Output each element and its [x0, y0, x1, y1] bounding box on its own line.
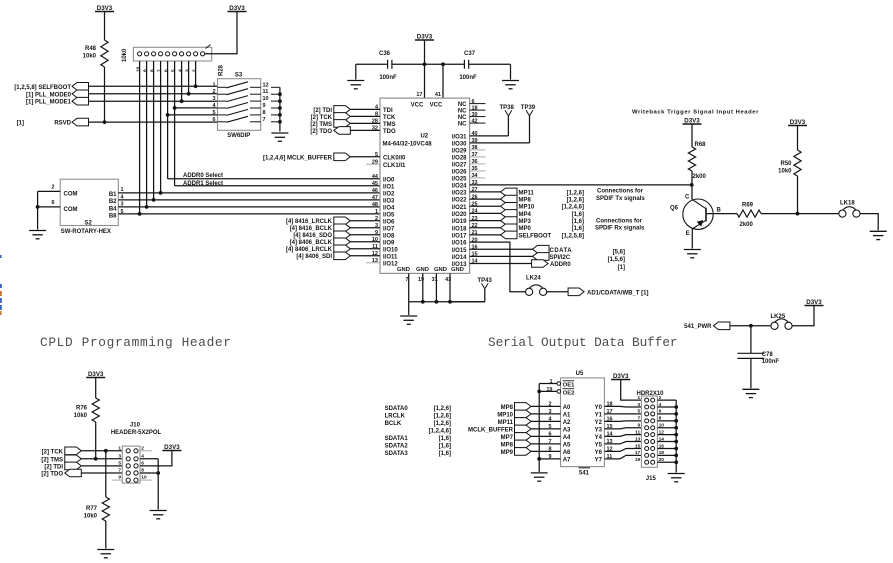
S3 right-side wires to ground bar [271, 86, 280, 88]
svg-text:R68: R68 [695, 142, 707, 148]
wire R50 to node [797, 176, 799, 214]
svg-text:A2: A2 [563, 420, 571, 426]
wire PLL_MODE1 to S3 pin3 [89, 100, 218, 102]
svg-text:10k0: 10k0 [84, 514, 98, 520]
resistor R68 2k00 [688, 147, 695, 171]
svg-text:3: 3 [212, 96, 215, 102]
svg-text:C37: C37 [464, 51, 476, 57]
capacitor C36 100nF [392, 63, 425, 65]
wire R69 to node [761, 213, 839, 215]
svg-text:LRCLK: LRCLK [385, 414, 406, 420]
svg-text:MP8: MP8 [501, 442, 514, 448]
svg-text:17: 17 [635, 450, 641, 456]
svg-text:Y0: Y0 [595, 405, 603, 411]
svg-text:[2] TCK: [2] TCK [311, 115, 333, 121]
svg-text:9: 9 [263, 103, 266, 109]
svg-text:S3: S3 [235, 73, 243, 79]
svg-text:I/O22: I/O22 [452, 198, 467, 204]
svg-text:[1,6]: [1,6] [439, 444, 451, 450]
svg-text:15: 15 [635, 443, 641, 449]
svg-text:J10: J10 [130, 422, 141, 428]
svg-text:[2] TDI: [2] TDI [44, 464, 63, 470]
capacitor C37 100nF [443, 63, 464, 65]
svg-text:[4] 8406_BCLK: [4] 8406_BCLK [290, 240, 333, 246]
svg-text:CLK0/I0: CLK0/I0 [383, 155, 406, 161]
svg-text:I/O31: I/O31 [452, 135, 467, 141]
svg-text:46: 46 [372, 188, 378, 194]
svg-text:A4: A4 [563, 435, 571, 441]
resistor network R28 10k0 [133, 47, 211, 61]
svg-text:NC: NC [458, 109, 467, 115]
svg-text:5: 5 [170, 69, 176, 72]
svg-text:I/O23: I/O23 [452, 191, 467, 197]
svg-text:11: 11 [263, 89, 269, 95]
resistor R50 10k0 [794, 150, 801, 176]
svg-text:Y7: Y7 [595, 458, 603, 464]
svg-text:7: 7 [118, 468, 121, 474]
svg-text:B8: B8 [109, 214, 117, 220]
ground (J10) [150, 510, 167, 512]
svg-text:C78: C78 [762, 352, 774, 358]
svg-text:I/O6: I/O6 [383, 219, 395, 225]
U2 CLK1 stub [366, 163, 380, 165]
svg-text:Y5: Y5 [595, 443, 603, 449]
wire U2 I/O24 to Q6 collector node [470, 184, 692, 186]
ground (C37) [510, 64, 512, 79]
svg-text:[4] 8416_BCLK: [4] 8416_BCLK [290, 226, 333, 232]
ports MP11/MP8/MP10/MP4/MP3/MP0/SELFBOOT [470, 191, 501, 193]
svg-text:U5: U5 [576, 371, 584, 377]
J10 pin10 stub [140, 479, 152, 481]
svg-text:[1,2,6]: [1,2,6] [434, 421, 451, 427]
svg-text:[1,2,4,6] MCLK_BUFFER: [1,2,4,6] MCLK_BUFFER [263, 155, 333, 161]
svg-text:10: 10 [263, 96, 269, 102]
svg-text:[1]: [1] [17, 121, 24, 127]
svg-text:I/O21: I/O21 [452, 205, 467, 211]
svg-text:[1,6]: [1,6] [572, 226, 584, 232]
svg-text:[1,2,5,8] SELFBOOT: [1,2,5,8] SELFBOOT [14, 85, 71, 91]
svg-text:[1,2,6]: [1,2,6] [434, 406, 451, 412]
svg-text:GND: GND [416, 267, 429, 273]
svg-text:J15: J15 [646, 476, 657, 482]
svg-text:I/O24: I/O24 [452, 184, 467, 190]
svg-text:OE2: OE2 [563, 391, 575, 397]
svg-text:[4] 8416_SDO: [4] 8416_SDO [293, 233, 332, 239]
wire LK25 to D3V3 [792, 306, 814, 326]
svg-text:TDO: TDO [383, 129, 396, 135]
svg-text:LK18: LK18 [840, 200, 855, 206]
wire LK24 to port [547, 291, 568, 293]
svg-text:TP38: TP38 [500, 105, 515, 111]
wire B4 to U2 I/O4 [118, 206, 380, 208]
svg-text:[2] TMS: [2] TMS [41, 457, 63, 463]
svg-text:I/O18: I/O18 [452, 226, 467, 232]
svg-text:MP10: MP10 [519, 205, 535, 211]
svg-text:MP8: MP8 [519, 197, 532, 203]
wire R76 to TMS row [95, 422, 97, 459]
svg-text:I/O17: I/O17 [452, 234, 467, 240]
svg-text:10k0: 10k0 [778, 168, 792, 174]
svg-text:A0: A0 [563, 405, 571, 411]
svg-text:541_PWR: 541_PWR [684, 324, 712, 330]
svg-text:I/O29: I/O29 [452, 149, 467, 155]
svg-text:[1] PLL_MODE1: [1] PLL_MODE1 [26, 100, 72, 106]
ground (R77) [97, 549, 114, 551]
svg-text:100nF: 100nF [762, 359, 780, 365]
port AD1/CDATA/WB_T [1] [568, 288, 584, 296]
svg-text:[1,6]: [1,6] [572, 212, 584, 218]
svg-text:I/O14: I/O14 [452, 255, 467, 261]
svg-text:Y4: Y4 [595, 435, 603, 441]
jumper LK24 [529, 285, 543, 289]
svg-text:C36: C36 [379, 51, 391, 57]
svg-text:TDI: TDI [383, 108, 393, 114]
svg-text:R50: R50 [780, 161, 792, 167]
ground (S2) [29, 230, 46, 232]
test point TP39 [470, 142, 530, 144]
svg-text:[1,2,4,6]: [1,2,4,6] [562, 205, 584, 211]
svg-text:I/O12: I/O12 [383, 261, 398, 267]
ground (LK18) [870, 230, 887, 232]
wire 541_PWR to LK25 [730, 325, 771, 327]
ground (Q6) [684, 249, 701, 251]
svg-text:100nF: 100nF [379, 75, 397, 81]
svg-text:LK25: LK25 [771, 314, 786, 320]
svg-text:MP3: MP3 [519, 219, 532, 225]
svg-text:Q6: Q6 [670, 206, 679, 212]
svg-text:TMS: TMS [383, 122, 396, 128]
svg-text:100nF: 100nF [459, 75, 477, 81]
wire R68 to collector node [691, 171, 693, 199]
svg-text:HEADER-5X2POL: HEADER-5X2POL [111, 430, 162, 436]
svg-text:9: 9 [548, 454, 551, 460]
svg-text:1: 1 [121, 187, 124, 193]
svg-text:3: 3 [638, 402, 641, 408]
svg-text:[1]: [1] [618, 265, 625, 271]
wire Q6 emitter to ground [691, 229, 693, 249]
svg-text:ADDR0: ADDR0 [550, 262, 571, 268]
svg-text:CDATA: CDATA [550, 248, 573, 254]
resistor R76 10k0 [92, 398, 99, 422]
svg-text:3: 3 [184, 69, 190, 72]
svg-text:I/O11: I/O11 [383, 254, 398, 260]
svg-text:[5,6]: [5,6] [613, 250, 625, 256]
svg-text:R48: R48 [85, 46, 97, 52]
svg-text:[2] TDI: [2] TDI [313, 108, 332, 114]
wires J15 right pins to ground bar [657, 399, 676, 401]
svg-text:Connections for: Connections for [596, 218, 643, 224]
svg-text:9: 9 [638, 423, 641, 429]
svg-text:11: 11 [635, 429, 640, 435]
svg-text:SW6DIP: SW6DIP [227, 133, 250, 139]
svg-text:I/O3: I/O3 [383, 199, 395, 205]
svg-text:2: 2 [212, 89, 215, 95]
svg-text:1: 1 [549, 379, 552, 385]
svg-text:[2] TCK: [2] TCK [42, 449, 64, 455]
wire VCC rail [425, 63, 444, 65]
svg-text:B2: B2 [109, 199, 117, 205]
svg-text:[1,2,6]: [1,2,6] [567, 190, 584, 196]
svg-text:OE1: OE1 [563, 383, 575, 389]
wire R28 pin1 to D3V3 [205, 12, 237, 54]
CPLD U2 M4-64/32-10VC48 [380, 98, 470, 273]
svg-text:B: B [717, 208, 722, 214]
svg-text:2k00: 2k00 [740, 222, 754, 228]
port ADDR0 [1] [470, 263, 532, 265]
svg-text:Y2: Y2 [595, 420, 603, 426]
svg-text:Connections for: Connections for [597, 189, 644, 195]
svg-text:44: 44 [372, 174, 379, 180]
svg-text:1: 1 [638, 395, 641, 401]
svg-text:I/O0: I/O0 [383, 177, 395, 183]
resistor R69 2k00 [737, 210, 761, 217]
svg-text:I/O27: I/O27 [452, 163, 467, 169]
jumper LK18 [842, 207, 856, 211]
U2 NC stubs [470, 103, 486, 105]
ground (U2) [400, 315, 417, 317]
svg-text:VCC: VCC [411, 102, 424, 108]
svg-text:NC: NC [458, 115, 467, 121]
wire J10 pin6 to D3V3 [140, 451, 172, 466]
svg-text:U2: U2 [420, 133, 428, 139]
svg-text:B4: B4 [109, 207, 117, 213]
svg-text:7: 7 [156, 69, 162, 72]
test point TP38 [470, 135, 509, 137]
svg-text:43: 43 [445, 277, 451, 283]
U2 GND pins to ground [408, 273, 410, 301]
svg-text:Y3: Y3 [595, 428, 603, 434]
svg-text:SW-ROTARY-HEX: SW-ROTARY-HEX [61, 229, 111, 235]
svg-text:13: 13 [635, 436, 641, 442]
svg-text:[1,2,4,6]: [1,2,4,6] [429, 429, 451, 435]
svg-text:[4] 8406_LRCLK: [4] 8406_LRCLK [286, 247, 333, 253]
svg-text:I/O15: I/O15 [452, 248, 467, 254]
svg-text:SDATA2: SDATA2 [385, 444, 409, 450]
svg-text:4: 4 [177, 69, 183, 72]
svg-text:5: 5 [638, 409, 641, 415]
svg-text:[1,2,6]: [1,2,6] [434, 414, 451, 420]
J10 pin9 stub [112, 479, 122, 481]
svg-text:SELFBOOT: SELFBOOT [519, 233, 552, 239]
wires U5 Y outputs to J15 [604, 405, 641, 408]
svg-text:SPDIF Rx signals: SPDIF Rx signals [595, 226, 645, 232]
wire R48 to RSVD net [104, 67, 106, 122]
svg-text:B1: B1 [109, 192, 117, 198]
svg-text:A6: A6 [563, 450, 571, 456]
svg-text:10: 10 [135, 66, 141, 72]
svg-text:3: 3 [118, 453, 121, 459]
svg-text:10k0: 10k0 [122, 48, 128, 62]
svg-text:[2] TDO: [2] TDO [41, 472, 63, 478]
svg-text:GND: GND [397, 267, 410, 273]
svg-text:RSVD: RSVD [54, 121, 71, 127]
svg-text:MP4: MP4 [519, 212, 532, 218]
svg-text:LK24: LK24 [526, 275, 541, 281]
svg-text:5: 5 [212, 110, 215, 116]
svg-text:1: 1 [118, 445, 121, 451]
svg-text:MP11: MP11 [519, 190, 535, 196]
svg-text:S2: S2 [85, 221, 93, 227]
wire B1 to U2 I/O2 [118, 192, 380, 194]
wire Q6 base to R69 [706, 213, 737, 215]
svg-text:NC: NC [458, 122, 467, 128]
svg-text:Y6: Y6 [595, 450, 603, 456]
port SPI/I2C [1,5,6] [470, 255, 533, 257]
svg-text:I/O7: I/O7 [383, 226, 395, 232]
svg-text:[1] PLL_MODE0: [1] PLL_MODE0 [26, 92, 72, 98]
svg-text:I/O2: I/O2 [383, 192, 395, 198]
wire SELFBOOT to S3 pin1 [89, 85, 218, 87]
svg-text:MP11: MP11 [498, 420, 514, 426]
svg-text:5: 5 [118, 461, 121, 467]
svg-text:I/O30: I/O30 [452, 142, 467, 148]
capacitor C78 100nF [750, 326, 752, 354]
svg-text:10k0: 10k0 [83, 54, 97, 60]
svg-text:[1,5,6]: [1,5,6] [608, 257, 625, 263]
U2 right stub pins 38-34 [470, 149, 486, 151]
svg-text:Serial Output Data Buffer: Serial Output Data Buffer [488, 335, 678, 350]
svg-text:I/O1: I/O1 [383, 184, 395, 190]
wire U2 I/O16 to LK24 [470, 242, 526, 292]
svg-text:19: 19 [546, 387, 552, 393]
svg-text:R69: R69 [742, 202, 754, 208]
svg-text:TCK: TCK [383, 115, 396, 121]
svg-text:I/O4: I/O4 [383, 206, 395, 212]
ground (S3) [271, 132, 288, 134]
svg-text:M4-64/32-10VC48: M4-64/32-10VC48 [383, 141, 433, 147]
wire RSVD to S3 pin6 [89, 121, 218, 123]
svg-text:Y1: Y1 [595, 413, 603, 419]
svg-text:12: 12 [263, 82, 269, 88]
wire D3V3 to R48 [104, 12, 106, 41]
wire S3 pin5 row [168, 114, 218, 116]
svg-text:8: 8 [149, 69, 155, 72]
svg-text:10k0: 10k0 [74, 413, 88, 419]
svg-text:I/O5: I/O5 [383, 213, 395, 219]
svg-text:COM: COM [64, 207, 78, 213]
svg-text:MP9: MP9 [501, 450, 514, 456]
svg-text:17: 17 [416, 92, 422, 98]
svg-text:2: 2 [51, 184, 54, 190]
svg-text:I/O9: I/O9 [383, 240, 395, 246]
svg-text:[1,6]: [1,6] [439, 436, 451, 442]
svg-text:VCC: VCC [430, 102, 443, 108]
wire LK18 to ground [860, 214, 878, 231]
J10 pin2 stub [140, 450, 152, 452]
page-edge marks [0, 255, 2, 258]
svg-text:I/O25: I/O25 [452, 177, 467, 183]
svg-text:[1,2,5,8]: [1,2,5,8] [562, 233, 584, 239]
svg-text:47: 47 [372, 195, 378, 201]
svg-text:I/O26: I/O26 [452, 170, 467, 176]
svg-text:6: 6 [212, 117, 215, 123]
svg-text:AD1/CDATA/WB_T [1]: AD1/CDATA/WB_T [1] [587, 291, 648, 297]
svg-text:SDATA1: SDATA1 [385, 436, 409, 442]
wire S2 COM pins to ground [38, 190, 61, 192]
svg-text:I/O16: I/O16 [452, 241, 467, 247]
svg-text:[1,6]: [1,6] [439, 451, 451, 457]
svg-text:2k00: 2k00 [693, 174, 707, 180]
svg-text:6: 6 [51, 200, 54, 206]
svg-text:1: 1 [212, 82, 215, 88]
wire B8 to U2 I/O5 [118, 213, 380, 215]
svg-text:A1: A1 [563, 413, 571, 419]
svg-text:I/O20: I/O20 [452, 212, 467, 218]
svg-text:I/O10: I/O10 [383, 247, 398, 253]
svg-text:SPI/I2C: SPI/I2C [550, 255, 571, 261]
R28 pin verticals [195, 61, 197, 86]
svg-text:MP7: MP7 [501, 435, 514, 441]
svg-text:I/O13: I/O13 [452, 262, 467, 268]
svg-text:MP8: MP8 [501, 405, 514, 411]
resistor R48 10k0 [101, 40, 108, 67]
svg-text:TP39: TP39 [521, 105, 536, 111]
wire J10 pin4/pin8 to ground [140, 458, 158, 460]
ground (C78) [742, 388, 759, 390]
svg-text:I/O19: I/O19 [452, 219, 467, 225]
svg-text:R28: R28 [219, 64, 225, 76]
svg-text:E: E [686, 231, 690, 237]
svg-text:MP10: MP10 [497, 412, 513, 418]
svg-text:19: 19 [635, 457, 641, 463]
svg-text:[4] 8416_LRCLK: [4] 8416_LRCLK [286, 219, 333, 225]
U2 I/O12 stub [366, 262, 380, 264]
svg-text:R77: R77 [86, 506, 98, 512]
rotary switch S2 SW-ROTARY-HEX [60, 179, 118, 225]
svg-text:48: 48 [372, 202, 378, 208]
svg-text:45: 45 [372, 181, 378, 187]
svg-text:R76: R76 [76, 405, 88, 411]
svg-text:19: 19 [418, 277, 424, 283]
svg-text:NC: NC [458, 102, 467, 108]
svg-text:TP43: TP43 [478, 278, 493, 284]
svg-text:1: 1 [375, 209, 378, 215]
wire B2 to U2 I/O3 [118, 199, 380, 201]
resistor R77 10k0 (TCK pulldown) [105, 451, 107, 497]
ground (U5) [531, 472, 548, 474]
svg-text:A5: A5 [563, 443, 571, 449]
svg-text:541: 541 [579, 470, 590, 476]
svg-text:[2] TDO: [2] TDO [310, 129, 332, 135]
svg-text:A3: A3 [563, 428, 571, 434]
svg-text:GND: GND [434, 267, 447, 273]
svg-text:COM: COM [64, 191, 78, 197]
svg-text:[1,2,6]: [1,2,6] [567, 197, 584, 203]
jumper LK25 [775, 319, 789, 323]
svg-text:MP0: MP0 [519, 226, 532, 232]
svg-text:31: 31 [432, 277, 438, 283]
svg-text:8: 8 [263, 110, 266, 116]
wire OE1/OE2/A7 to ground [539, 383, 557, 385]
svg-text:[2] TMS: [2] TMS [310, 122, 332, 128]
svg-text:SPDIF Tx signals: SPDIF Tx signals [596, 196, 645, 202]
svg-text:9: 9 [118, 475, 121, 481]
svg-text:BCLK: BCLK [385, 421, 402, 427]
svg-text:9: 9 [142, 69, 148, 72]
svg-text:41: 41 [435, 92, 441, 98]
svg-text:7: 7 [263, 117, 266, 123]
ground (C36) [355, 64, 357, 79]
wire D3V3 to J15 pin1 [621, 380, 642, 401]
svg-text:[4] 8406_SDI: [4] 8406_SDI [296, 254, 332, 260]
svg-text:SDATA3: SDATA3 [385, 451, 409, 457]
ground (J15) [668, 473, 685, 475]
svg-text:MCLK_BUFFER: MCLK_BUFFER [468, 427, 514, 433]
svg-text:CPLD Programming Header: CPLD Programming Header [40, 335, 232, 350]
svg-text:7: 7 [405, 277, 408, 283]
svg-text:I/O28: I/O28 [452, 156, 467, 162]
svg-text:2: 2 [191, 69, 197, 72]
